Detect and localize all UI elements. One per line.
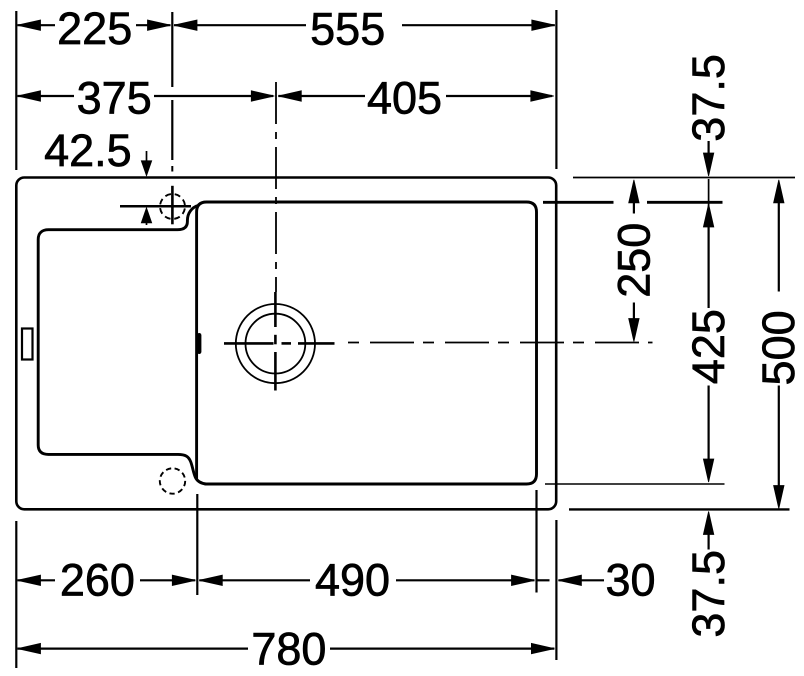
arrow 405 left <box>278 91 301 101</box>
svg-text:37.5: 37.5 <box>683 550 734 638</box>
rim bottom edge extension right <box>569 508 790 510</box>
arrow 260 left <box>18 575 41 585</box>
drain cross vertical a <box>274 292 277 327</box>
arrow 37.5 bottom up <box>703 512 713 535</box>
right extension top <box>555 10 557 169</box>
dim 42.5 tail lower <box>146 220 148 225</box>
drain cross vertical b <box>274 335 277 345</box>
arrow 225 right <box>148 20 171 30</box>
arrow 42.5 up <box>141 208 151 223</box>
dim 425 tail lower <box>707 386 709 462</box>
dim 37.5 bottom tail <box>707 532 709 550</box>
horizontal centerline y342.5 <box>348 342 653 344</box>
arrow 250 down <box>629 319 639 342</box>
lower dashed circle <box>160 468 185 493</box>
arrow 500 down <box>774 486 784 509</box>
arrow 260 right <box>172 575 195 585</box>
bowl top edge extension right a <box>543 201 614 204</box>
drainer outline <box>38 205 210 484</box>
dim 425 tail upper <box>707 224 709 308</box>
svg-text:42.5: 42.5 <box>44 125 132 176</box>
svg-text:425: 425 <box>683 309 734 384</box>
drain cross horizontal a <box>224 342 274 345</box>
arrow 225 left <box>18 20 41 30</box>
dim 490 line right <box>396 579 535 581</box>
dim line between 490 and 30 <box>538 579 550 581</box>
svg-text:405: 405 <box>367 72 442 123</box>
svg-text:500: 500 <box>753 310 804 385</box>
dim 260 line right <box>140 579 195 581</box>
arrow 250 up <box>629 180 639 203</box>
svg-text:555: 555 <box>310 4 385 55</box>
svg-text:780: 780 <box>251 624 326 675</box>
bowl left extension bottom <box>196 494 198 595</box>
dim 250 tail lower <box>633 303 635 324</box>
arrow 425 down <box>703 459 713 482</box>
arrow 42.5 down <box>141 161 151 176</box>
dim 375 line right <box>154 95 273 97</box>
arrow 37.5 top down <box>703 153 713 176</box>
dim 780 line left <box>18 647 249 649</box>
right extension bottom <box>555 520 557 660</box>
arrow 555 left <box>174 20 197 30</box>
dim 225 line right <box>136 24 171 26</box>
drain cross horizontal c <box>298 342 335 345</box>
arrow 500 up <box>774 180 784 203</box>
svg-text:375: 375 <box>77 73 152 124</box>
dim 500 tail lower <box>778 386 780 488</box>
dim 42.5 tail upper <box>146 151 148 163</box>
arrow 375 left <box>18 91 41 101</box>
dim 30 line <box>558 579 604 581</box>
svg-text:250: 250 <box>609 223 660 298</box>
arrow 555 right <box>532 20 555 30</box>
dim 490 line left <box>199 579 310 581</box>
overflow marker rect <box>22 329 33 360</box>
svg-text:225: 225 <box>57 3 132 54</box>
dim 375 line left <box>18 95 75 97</box>
tap hole cross vertical <box>171 186 174 225</box>
rim top edge extension right <box>573 177 795 179</box>
left extension top <box>15 11 17 170</box>
dim 555 line left <box>174 24 306 26</box>
bowl edge tick <box>197 333 201 354</box>
dim 555 line right <box>402 24 555 26</box>
arrow 490 left <box>199 575 222 585</box>
drain inner circle <box>246 314 306 374</box>
svg-text:260: 260 <box>60 555 135 606</box>
dim 37.5 top tail <box>707 141 709 156</box>
tap column centerline <box>171 100 173 160</box>
dim 405 line left <box>278 95 365 97</box>
vertical centerline x276 <box>275 82 277 292</box>
outer sink rim <box>16 178 556 510</box>
drain cross vertical c <box>274 352 277 391</box>
drain cross horizontal b <box>282 342 292 345</box>
bowl bottom edge extension right <box>545 483 725 485</box>
dim 405 line right <box>446 95 552 97</box>
dim 780 line right <box>330 647 554 649</box>
arrow 375 right <box>251 91 274 101</box>
dim 260 line left <box>18 579 56 581</box>
arrow 780 right <box>531 643 554 653</box>
left extension bottom <box>15 521 17 668</box>
tap column centerline dash <box>171 166 173 172</box>
tap hole dashed circle <box>160 194 185 219</box>
svg-text:490: 490 <box>315 555 390 606</box>
bowl top edge extension right b <box>647 201 723 204</box>
arrow 30 left <box>558 575 581 585</box>
bowl right extension bottom <box>535 490 537 593</box>
svg-text:37.5: 37.5 <box>683 54 734 142</box>
main bowl <box>197 202 537 484</box>
arrow 425 up <box>703 204 713 227</box>
dim 500 tail upper <box>778 200 780 292</box>
svg-text:30: 30 <box>605 555 655 606</box>
dim 37.5 top through line <box>708 179 710 209</box>
arrow 780 left <box>18 643 41 653</box>
dim 225 line left <box>18 24 56 26</box>
tap column extension upper <box>171 12 173 87</box>
drain outer circle <box>236 304 315 383</box>
arrow 405 right <box>531 91 554 101</box>
arrow 490 right <box>512 575 535 585</box>
dim 250 tail upper <box>633 200 635 214</box>
tap hole cross horizontal <box>120 205 191 208</box>
